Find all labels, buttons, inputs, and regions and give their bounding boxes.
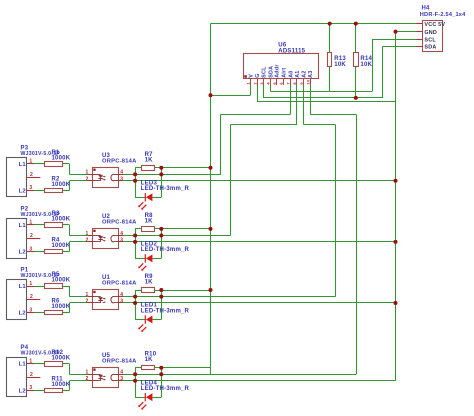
svg-text:L2: L2 xyxy=(19,311,26,317)
svg-text:2: 2 xyxy=(30,233,33,239)
svg-text:1: 1 xyxy=(29,359,32,365)
svg-text:3: 3 xyxy=(29,246,32,252)
svg-text:SDA: SDA xyxy=(424,45,436,51)
svg-text:L1: L1 xyxy=(19,162,27,168)
svg-text:L2: L2 xyxy=(19,188,26,194)
svg-text:1: 1 xyxy=(85,170,88,176)
svg-text:3: 3 xyxy=(29,385,32,391)
svg-text:10K: 10K xyxy=(334,62,346,68)
svg-text:1: 1 xyxy=(85,231,88,237)
svg-text:2: 2 xyxy=(85,376,88,382)
svg-text:VCC 5V: VCC 5V xyxy=(424,22,445,28)
svg-text:LED-TH-3mm_R: LED-TH-3mm_R xyxy=(141,386,190,392)
svg-text:2: 2 xyxy=(85,237,88,243)
svg-text:L1: L1 xyxy=(19,284,27,290)
svg-text:L2: L2 xyxy=(19,388,26,394)
svg-text:SCL: SCL xyxy=(424,37,436,43)
svg-text:G: G xyxy=(255,73,261,77)
svg-text:ORPC-814A: ORPC-814A xyxy=(102,220,137,226)
svg-text:SDA: SDA xyxy=(268,66,274,78)
svg-text:3: 3 xyxy=(29,185,32,191)
svg-text:H4: H4 xyxy=(422,6,431,12)
svg-text:A3: A3 xyxy=(308,70,314,77)
svg-text:3: 3 xyxy=(120,299,123,305)
svg-text:10: 10 xyxy=(306,79,311,84)
svg-text:1000K: 1000K xyxy=(52,155,71,161)
svg-text:1: 1 xyxy=(85,370,88,376)
svg-text:Alrt: Alrt xyxy=(281,68,287,78)
svg-text:1: 1 xyxy=(29,159,32,165)
svg-text:1000K: 1000K xyxy=(52,243,71,249)
svg-text:10K: 10K xyxy=(360,62,372,68)
svg-text:ORPC-814A: ORPC-814A xyxy=(102,281,137,287)
svg-text:SCL: SCL xyxy=(262,66,268,78)
svg-text:2: 2 xyxy=(30,172,33,178)
svg-text:A1: A1 xyxy=(295,70,301,77)
svg-text:1K: 1K xyxy=(145,218,154,224)
svg-text:Addr: Addr xyxy=(275,64,281,78)
svg-text:1: 1 xyxy=(85,292,88,298)
svg-text:V: V xyxy=(248,74,254,78)
svg-text:ORPC-814A: ORPC-814A xyxy=(102,158,137,164)
svg-text:1000K: 1000K xyxy=(52,182,71,188)
svg-text:3: 3 xyxy=(120,376,123,382)
svg-text:GND: GND xyxy=(424,30,437,36)
svg-text:2: 2 xyxy=(30,294,33,300)
svg-text:A0: A0 xyxy=(288,70,294,77)
svg-text:2: 2 xyxy=(85,299,88,305)
svg-text:ADS1115: ADS1115 xyxy=(278,49,305,55)
svg-text:LED-TH-3mm_R: LED-TH-3mm_R xyxy=(141,247,190,253)
svg-text:3: 3 xyxy=(120,176,123,182)
svg-text:1000K: 1000K xyxy=(52,217,71,223)
svg-text:L1: L1 xyxy=(19,362,27,368)
svg-text:1K: 1K xyxy=(145,357,154,363)
svg-text:LED-TH-3mm_R: LED-TH-3mm_R xyxy=(141,308,190,314)
svg-text:3: 3 xyxy=(120,237,123,243)
svg-text:ORPC-814A: ORPC-814A xyxy=(102,358,137,364)
svg-text:1000K: 1000K xyxy=(52,355,71,361)
svg-text:L2: L2 xyxy=(19,250,26,256)
svg-text:2: 2 xyxy=(85,176,88,182)
svg-text:HDR-F-2.54_1x4: HDR-F-2.54_1x4 xyxy=(420,12,466,18)
svg-text:LED-TH-3mm_R: LED-TH-3mm_R xyxy=(141,186,190,192)
svg-text:1000K: 1000K xyxy=(52,304,71,310)
svg-text:1000K: 1000K xyxy=(52,382,71,388)
svg-text:2: 2 xyxy=(30,372,33,378)
svg-text:1K: 1K xyxy=(145,157,154,163)
svg-text:1K: 1K xyxy=(145,280,154,286)
svg-text:A2: A2 xyxy=(302,70,308,77)
svg-text:3: 3 xyxy=(29,307,32,313)
svg-text:1: 1 xyxy=(29,281,32,287)
svg-text:1000K: 1000K xyxy=(52,278,71,284)
svg-text:L1: L1 xyxy=(19,223,27,229)
svg-text:1: 1 xyxy=(29,220,32,226)
